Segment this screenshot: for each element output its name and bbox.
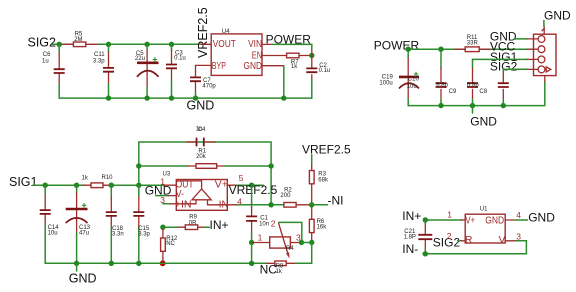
capacitor C1 <box>246 185 269 242</box>
svg-text:R10: R10 <box>102 175 114 181</box>
wire SIG1 row to C8 <box>473 58 528 60</box>
capacitor C11 <box>93 44 114 98</box>
wire U4 EN pin stub <box>262 55 287 57</box>
wire SIG2 row to cap <box>503 68 527 70</box>
ground GND label top-left block <box>187 99 215 113</box>
wire SIG2 to U1 pin2 <box>458 240 466 242</box>
wire feedback right vertical <box>270 142 272 205</box>
svg-text:GND: GND <box>490 29 517 43</box>
svg-text:U4: U4 <box>222 29 230 35</box>
node VREF2.5 vertical label <box>196 7 210 58</box>
svg-text:1k: 1k <box>82 176 89 182</box>
svg-text:1k: 1k <box>291 64 298 70</box>
wire feedback left vertical <box>139 142 271 185</box>
node junction C1 bottom <box>249 240 254 245</box>
svg-text:SIG2: SIG2 <box>28 36 57 50</box>
svg-text:1: 1 <box>447 210 452 220</box>
svg-text:3: 3 <box>516 231 521 241</box>
node junction C21 top <box>423 217 428 222</box>
node junction bottom C18 <box>109 261 114 266</box>
svg-text:10u: 10u <box>407 84 417 90</box>
capacitor C8 <box>467 59 488 105</box>
node GND label connector pin1 <box>490 29 517 43</box>
node junction bottom C1 <box>249 261 254 266</box>
svg-text:R9: R9 <box>189 214 197 220</box>
svg-text:1: 1 <box>258 233 263 243</box>
node junction bottom C13 GND stub <box>74 261 79 271</box>
svg-text:3.3p: 3.3p <box>93 59 105 65</box>
svg-text:GND: GND <box>69 271 97 285</box>
node SIG2 label <box>28 36 57 50</box>
svg-text:+IN: +IN <box>175 199 192 211</box>
resistor R10 <box>82 175 114 188</box>
svg-text:C11: C11 <box>94 52 105 58</box>
wire SIG2 top row <box>53 43 74 45</box>
svg-text:R: R <box>465 234 473 246</box>
wire C1 junction down to bottom row <box>251 243 253 264</box>
resistor R11 <box>455 35 490 51</box>
svg-text:BYP: BYP <box>212 60 226 72</box>
node junction C11 <box>106 42 111 47</box>
node NC label <box>260 262 278 276</box>
node SIG1 label <box>9 175 38 189</box>
wire POWER row to connector <box>406 48 528 50</box>
svg-text:C8: C8 <box>479 89 487 95</box>
svg-text:VREF2.5: VREF2.5 <box>229 183 278 197</box>
capacitor C21 <box>404 220 433 254</box>
svg-text:3.3n: 3.3n <box>112 232 124 238</box>
node junction feedback R1 left <box>136 163 141 168</box>
wire bottom row top-left block <box>59 97 312 99</box>
svg-text:6.8p: 6.8p <box>467 82 479 88</box>
node junction C9 top <box>438 47 443 52</box>
wire bottom row center block <box>45 262 267 264</box>
wire U3 pin3 +IN down <box>163 203 176 205</box>
node junction feedback R1 right <box>268 163 273 168</box>
capacitor C6 <box>42 44 65 98</box>
node junction C3 <box>169 42 174 47</box>
svg-text:200: 200 <box>280 193 291 199</box>
capacitor C13 polarized <box>66 185 91 263</box>
capacitor C2 <box>306 50 330 98</box>
svg-text:VIN: VIN <box>248 38 262 50</box>
node junction C15 feedback <box>136 183 141 188</box>
svg-text:20k: 20k <box>196 154 207 160</box>
node junction bottom C8 GND stub <box>470 103 475 113</box>
svg-text:2: 2 <box>271 218 276 228</box>
svg-text:5: 5 <box>239 173 244 183</box>
wire -NI row <box>312 204 328 206</box>
node junction bottom C7 <box>193 95 198 100</box>
capacitor C9 <box>436 52 458 106</box>
node junction R9/R12 <box>160 225 165 230</box>
svg-text:GND: GND <box>244 60 263 72</box>
svg-text:6.8p: 6.8p <box>436 82 448 88</box>
node junction C19 top <box>406 47 411 52</box>
node -NI label <box>328 194 344 208</box>
node junction C21 bottom <box>423 251 428 256</box>
svg-text:SIG1: SIG1 <box>9 175 38 189</box>
wire R4 junction to R6 junction <box>302 242 312 244</box>
ground GND label connector top <box>544 9 571 27</box>
wire U3 pin5 V+ VREF <box>227 184 263 186</box>
svg-text:C10: C10 <box>408 77 420 83</box>
node junction bottom C11 <box>106 95 111 100</box>
capacitor C5 polarized <box>135 44 159 98</box>
node junction C5 <box>144 42 149 47</box>
svg-text:C4: C4 <box>198 127 206 133</box>
node junction R12 bottom red <box>160 260 166 266</box>
wire U1 pin1 stub <box>461 219 465 221</box>
capacitor SIG2 filter <box>498 69 509 105</box>
wire GND to pin1 <box>514 38 527 40</box>
node IN+ label U1 <box>402 209 421 223</box>
node junction bottom SIG2 cap <box>501 103 506 108</box>
svg-text:GND: GND <box>470 115 497 129</box>
wire U3 pin2 V- GND stub <box>156 195 177 197</box>
wire U3 pin1 OUT stub <box>164 184 177 186</box>
resistor R12 NC <box>161 229 178 261</box>
svg-text:47u: 47u <box>79 231 89 237</box>
node IN- label <box>402 242 418 256</box>
wire U4 VIN to C2 top corner <box>262 44 312 50</box>
node junction C13 <box>74 183 79 188</box>
ground GND label U3 V- <box>145 183 172 197</box>
node junction R4 pin3 <box>299 240 304 245</box>
node SIG1 label connector <box>490 50 518 64</box>
svg-text:GND: GND <box>187 99 215 113</box>
svg-text:GND: GND <box>485 214 504 226</box>
svg-text:VREF2.5: VREF2.5 <box>302 142 351 156</box>
svg-text:0R: 0R <box>189 221 197 227</box>
svg-text:GND: GND <box>145 183 172 197</box>
svg-text:2: 2 <box>447 231 452 241</box>
node SIG2 label U1 <box>433 235 461 249</box>
capacitor C7 <box>190 72 216 99</box>
svg-text:-IN: -IN <box>215 199 228 211</box>
wire U1 pin3 stub <box>505 240 515 242</box>
capacitor C14 <box>40 185 60 263</box>
svg-text:GND: GND <box>544 9 571 23</box>
node junction bottom C5 <box>144 95 149 100</box>
svg-text:0.1u: 0.1u <box>319 68 331 74</box>
svg-text:POWER: POWER <box>374 39 420 53</box>
ground GND label U1 <box>528 210 555 224</box>
node IN+ label <box>210 218 229 232</box>
node VCC label <box>490 39 516 53</box>
svg-text:1u: 1u <box>42 59 49 65</box>
ground GND label top-right bottom <box>470 115 497 129</box>
node VREF2.5 label top <box>302 142 351 156</box>
svg-text:IN+: IN+ <box>402 209 421 223</box>
svg-text:R4: R4 <box>286 246 294 252</box>
svg-text:-NI: -NI <box>328 194 344 208</box>
node junction bottom C3 <box>169 95 174 100</box>
resistor R2 <box>280 187 311 207</box>
ground GND label center block <box>69 271 97 285</box>
node junction C18 <box>109 183 114 188</box>
svg-text:4: 4 <box>516 210 521 220</box>
node junction SIG2/C6 <box>57 42 62 47</box>
node junction pin4 feedback <box>268 202 273 207</box>
svg-text:10n: 10n <box>259 221 269 227</box>
node VREF2.5 label U3 <box>229 183 278 197</box>
capacitor C18 <box>106 185 124 263</box>
resistor R9 <box>163 214 209 229</box>
svg-text:68k: 68k <box>318 177 329 183</box>
wire R10 to U3 OUT <box>111 184 163 186</box>
svg-text:3.3p: 3.3p <box>138 232 150 238</box>
node junction EN/R7/C2 <box>309 53 314 58</box>
svg-text:VOUT: VOUT <box>213 38 237 50</box>
svg-text:16k: 16k <box>317 225 328 231</box>
svg-text:2M: 2M <box>74 37 82 43</box>
node POWER label top-right <box>374 39 420 53</box>
op-amp U3 <box>160 172 243 211</box>
svg-text:V+: V+ <box>466 214 476 226</box>
svg-text:1.8P: 1.8P <box>404 234 416 240</box>
wire U4 VOUT pin stub <box>201 43 211 45</box>
node junction bottom C15 <box>136 261 141 266</box>
svg-text:GND: GND <box>528 210 555 224</box>
svg-text:470p: 470p <box>202 84 216 90</box>
node junction R6 bottom <box>309 240 314 245</box>
node junction C14 <box>43 183 48 188</box>
wire SIG1 row <box>33 184 83 186</box>
svg-text:IN-: IN- <box>402 242 418 256</box>
potentiometer R4 <box>252 218 302 258</box>
svg-text:IN+: IN+ <box>210 218 229 232</box>
wire IN- row to U1 pin3 <box>423 241 526 254</box>
op-amp U1 reference box <box>447 207 522 246</box>
node SIG2 label connector <box>490 60 518 74</box>
svg-text:100u: 100u <box>379 80 392 86</box>
svg-text:NC: NC <box>166 241 175 247</box>
svg-text:C9: C9 <box>449 89 457 95</box>
resistor R8 NC <box>267 243 312 276</box>
svg-text:33R: 33R <box>467 41 479 47</box>
svg-text:10u: 10u <box>48 231 58 237</box>
svg-text:C6: C6 <box>43 52 51 58</box>
wire U4 GND pin down to bottom row <box>262 66 284 98</box>
node junction bottom C9 <box>438 103 443 108</box>
capacitor C4 <box>187 126 216 146</box>
svg-text:0.1u: 0.1u <box>174 56 186 62</box>
node junction pin5 C1 <box>249 183 254 188</box>
resistor R5 <box>59 32 98 47</box>
svg-text:V+: V+ <box>215 179 228 191</box>
wire top row R5 to U4 VOUT <box>99 43 202 45</box>
wire U1 pin4 to GND <box>505 219 527 221</box>
node junction U4 GND bottom <box>281 95 286 100</box>
wire U4 BYP pin to C7 <box>196 65 212 71</box>
node POWER label top-left <box>266 32 312 46</box>
node junction -NI <box>309 202 314 207</box>
svg-text:22u: 22u <box>135 56 145 62</box>
capacitor C19 with C10 overlapped polarized <box>379 52 419 106</box>
op-amp U4 regulator box <box>211 29 262 75</box>
svg-text:NC: NC <box>260 262 278 276</box>
svg-text:U1: U1 <box>480 207 488 213</box>
capacitor C15 <box>133 185 150 263</box>
resistor R1 <box>139 148 271 168</box>
svg-text:VREF2.5: VREF2.5 <box>196 7 210 58</box>
capacitor C3 <box>166 44 186 98</box>
svg-text:V: V <box>499 234 506 246</box>
wire bottom row top-right block <box>408 82 545 106</box>
wire U3 pin4 -IN to R2 <box>227 204 284 206</box>
resistor R7 <box>287 53 312 70</box>
wire IN+ row <box>425 219 462 221</box>
resistor R6 <box>309 208 327 241</box>
connector J1 <box>527 26 556 81</box>
resistor R3 <box>309 155 329 202</box>
